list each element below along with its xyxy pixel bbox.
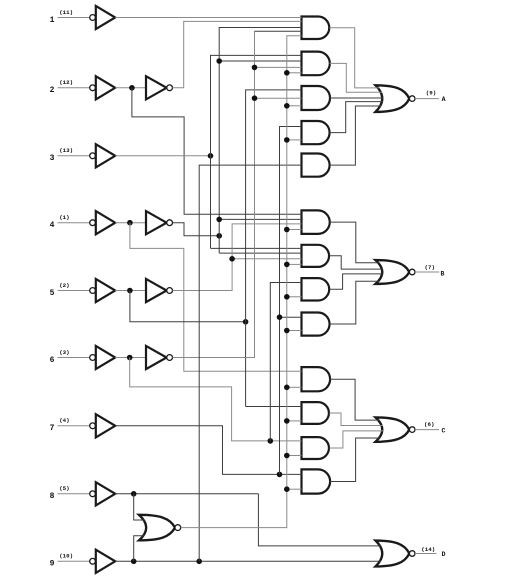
svg-text:(4): (4) <box>59 417 69 424</box>
svg-text:(11): (11) <box>59 9 73 16</box>
svg-text:(10): (10) <box>59 553 73 560</box>
svg-text:(13): (13) <box>59 147 73 154</box>
svg-text:(5): (5) <box>59 485 69 492</box>
svg-text:5: 5 <box>50 289 55 298</box>
svg-text:B: B <box>441 271 445 278</box>
svg-text:9: 9 <box>50 560 55 569</box>
svg-text:(9): (9) <box>426 90 436 97</box>
svg-text:(6): (6) <box>424 421 434 428</box>
svg-text:4: 4 <box>50 221 55 230</box>
svg-text:8: 8 <box>50 492 55 501</box>
svg-text:7: 7 <box>50 424 55 433</box>
svg-text:A: A <box>442 96 446 103</box>
svg-text:2: 2 <box>50 86 55 95</box>
svg-text:C: C <box>441 428 445 435</box>
svg-text:(1): (1) <box>59 214 69 221</box>
svg-text:(12): (12) <box>59 79 73 86</box>
svg-text:(14): (14) <box>421 546 435 553</box>
svg-text:6: 6 <box>50 356 55 365</box>
svg-text:3: 3 <box>50 154 55 163</box>
svg-text:1: 1 <box>50 16 55 25</box>
svg-text:(2): (2) <box>59 282 69 289</box>
svg-text:(7): (7) <box>425 264 435 271</box>
svg-text:D: D <box>442 551 446 558</box>
svg-text:(3): (3) <box>59 349 69 356</box>
